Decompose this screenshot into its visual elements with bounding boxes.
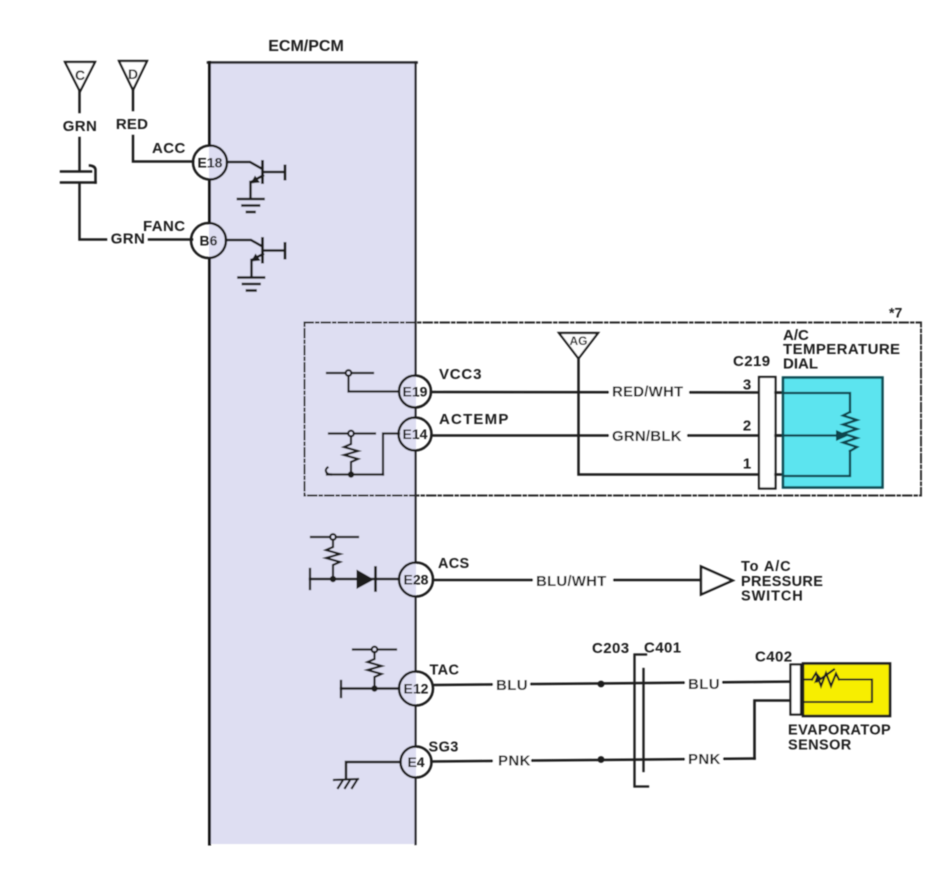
transistor Q1 emitter arrow [251, 176, 261, 184]
wire emitter to ground [250, 260, 253, 276]
ground (Q1) [238, 199, 264, 212]
thermistor inside sensor [804, 670, 872, 703]
svg-text:To A/C: To A/C [741, 559, 792, 575]
svg-text:PNK: PNK [498, 753, 531, 770]
label RED/WHT [609, 383, 689, 401]
wire base lead Q2 [226, 240, 262, 246]
wire GRN into B6 [149, 238, 192, 241]
svg-text:E28: E28 [404, 572, 429, 588]
junction dot [348, 471, 354, 477]
connector arrow D [119, 61, 147, 90]
svg-text:SG3: SG3 [429, 740, 459, 756]
connector C401 half [642, 669, 644, 771]
label PNK (right) [685, 749, 723, 768]
svg-text:C402: C402 [755, 649, 792, 666]
svg-text:SENSOR: SENSOR [788, 738, 852, 754]
svg-text:E19: E19 [403, 384, 428, 400]
ground hatch [334, 779, 358, 788]
connector C203 half [635, 655, 649, 787]
svg-text:ACC: ACC [152, 140, 186, 157]
svg-text:ACTEMP: ACTEMP [439, 411, 510, 428]
svg-text:E4: E4 [407, 754, 424, 770]
pin E4 [401, 747, 432, 778]
terminal hook at E12 [340, 681, 342, 697]
ground (Q2) [239, 278, 265, 291]
junction dot on BLU [598, 681, 605, 688]
svg-text:1: 1 [743, 456, 751, 473]
junction dot [330, 576, 336, 582]
transistor Q1 (at E18) [227, 162, 285, 198]
wire RED to E18 [133, 136, 193, 162]
A/C temperature dial box [783, 378, 883, 488]
svg-text:BLU: BLU [496, 677, 528, 694]
ECM/PCM box left border [208, 63, 211, 845]
svg-text:FANC: FANC [143, 218, 185, 235]
svg-text:AG: AG [570, 334, 588, 348]
transistor Q2 emitter lead [253, 254, 264, 260]
label GRN/BLK [609, 428, 687, 446]
transistor Q1 collector lead [264, 171, 285, 174]
label A/C TEMPERATURE DIAL [783, 327, 900, 373]
wire BLU (E12 to C402) [433, 682, 804, 686]
wire AG stem down and right to pin 1 [579, 359, 760, 475]
ECM/PCM box top border [208, 61, 417, 64]
resistor R2 (inside ECM at E28) [326, 540, 340, 578]
wire E12 internal [341, 687, 399, 690]
wire GRN vertical lower [80, 184, 107, 240]
svg-text:C: C [75, 67, 85, 83]
wire emitter to ground [249, 182, 252, 198]
svg-text:DIAL: DIAL [783, 356, 818, 373]
wire stem below D [132, 90, 135, 110]
wire GRN/BLK (E14 to C219 pin 2) [432, 434, 784, 437]
internal contact symbol at E14 [329, 431, 375, 437]
svg-text:TAC: TAC [430, 663, 460, 679]
transistor Q2 emitter arrow [251, 254, 261, 262]
diode D1 [357, 568, 376, 591]
pin E14 [399, 418, 432, 451]
svg-text:SWITCH: SWITCH [741, 589, 804, 605]
chassis ground at E4 [346, 762, 400, 779]
dashed option box *7 [305, 323, 922, 496]
svg-text:EVAPORATOP: EVAPORATOP [788, 723, 891, 739]
connector arrow AG [559, 333, 598, 359]
resistor R3 (inside ECM at E12) [368, 652, 382, 688]
internal pullup symbol at E28 [311, 534, 358, 540]
transistor Q2 (at B6) [226, 239, 285, 277]
svg-text:RED/WHT: RED/WHT [612, 384, 683, 401]
svg-text:ACS: ACS [438, 556, 470, 572]
svg-text:3: 3 [743, 377, 751, 394]
off-page arrow to A/C pressure switch [701, 567, 733, 595]
wire PNK (E4 to riser) [432, 759, 755, 762]
resistor R1 (inside ECM at E14) [344, 437, 358, 475]
wire GRN vertical [78, 138, 81, 171]
pin B6 [191, 223, 226, 258]
internal pullup symbol at E12 [353, 647, 396, 653]
svg-text:C401: C401 [644, 640, 681, 657]
label To A/C PRESSURE SWITCH [741, 559, 823, 605]
pin E28 [399, 563, 433, 597]
ground hook at E14 [326, 468, 331, 475]
wire PNK (C401 to C402) [755, 701, 805, 759]
potentiometer wiper arrow [836, 430, 849, 441]
wire E14 internal [383, 434, 399, 475]
junction dot on PNK [598, 756, 605, 763]
label BLU [493, 675, 530, 694]
label BLU/WHT [533, 573, 613, 591]
svg-text:C203: C203 [592, 640, 629, 657]
wire pin3 stub [776, 391, 784, 394]
transistor Q1 base bar [261, 162, 264, 183]
terminal hook at E28 [309, 569, 311, 589]
transistor Q1 emitter lead [252, 176, 263, 182]
wire stem below C [78, 92, 81, 113]
svg-text:2: 2 [743, 418, 751, 435]
wire BLU/WHT [433, 579, 700, 582]
connector arrow C [65, 62, 95, 92]
transistor Q2 collector lead [264, 249, 285, 252]
label BLU (right) [685, 673, 722, 693]
wire base lead Q1 [227, 162, 262, 169]
connector C219 [759, 377, 776, 489]
wire E28 internal [310, 578, 399, 581]
wire pin1 stub [776, 473, 784, 476]
svg-text:BLU: BLU [688, 676, 720, 693]
svg-text:GRN/BLK: GRN/BLK [612, 428, 682, 445]
svg-text:B6: B6 [200, 233, 218, 249]
pin E18 [193, 146, 227, 180]
svg-text:GRN: GRN [111, 231, 146, 248]
transistor Q1 collector terminal bar [284, 166, 287, 179]
inline connector (capacitor-style) on GRN wire [61, 166, 96, 183]
internal ground bus at E14 [327, 473, 383, 475]
svg-text:C219: C219 [733, 353, 770, 370]
transistor Q2 base bar [261, 239, 264, 263]
junction dot [371, 685, 377, 691]
svg-text:E12: E12 [404, 681, 429, 697]
svg-text:D: D [128, 66, 138, 82]
svg-text:RED: RED [116, 116, 148, 133]
svg-text:VCC3: VCC3 [439, 366, 482, 383]
svg-text:E14: E14 [403, 426, 428, 442]
transistor Q2 collector terminal bar [284, 244, 287, 259]
ECM/PCM box right border [414, 63, 416, 845]
svg-text:*7: *7 [889, 305, 902, 321]
ECM/PCM box [208, 63, 417, 845]
thermistor arrow head [814, 674, 822, 684]
svg-text:ECM/PCM: ECM/PCM [268, 38, 344, 55]
svg-text:E18: E18 [198, 155, 223, 171]
pin E19 [399, 376, 431, 408]
svg-text:GRN: GRN [63, 118, 98, 135]
connector C402 [791, 665, 802, 715]
wire pin2 stub [776, 434, 784, 437]
label EVAPORATOP SENSOR [788, 723, 891, 754]
evaporator sensor box [803, 664, 890, 717]
potentiometer inside dial box [784, 393, 857, 476]
wire RED/WHT (E19 to C219 pin 3) [431, 391, 783, 394]
svg-text:PNK: PNK [688, 751, 721, 768]
internal contact symbol at E19 [327, 370, 399, 391]
pin E12 [399, 672, 433, 706]
label PNK [493, 750, 531, 770]
svg-text:BLU/WHT: BLU/WHT [536, 573, 607, 590]
